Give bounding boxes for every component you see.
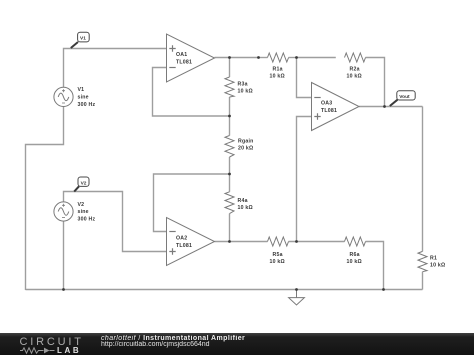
resistor Rgain zigzag [225,136,234,158]
svg-text:OA2: OA2 [176,236,187,242]
svg-text:R4a: R4a [238,198,248,204]
node OA3 out / R2a [383,105,386,108]
svg-text:R1a: R1a [273,67,283,73]
resistor R3a zigzag [225,77,234,97]
source V2 [54,202,73,221]
svg-text:sine: sine [78,95,89,101]
resistor R1a zigzag [268,53,289,62]
footer text line 2 [101,341,210,348]
footer bar [0,333,474,355]
svg-text:R5a: R5a [273,252,283,258]
node R6a rail [382,288,385,291]
resistor R6a zigzag [345,237,366,246]
wire R1a leads [259,57,268,59]
footer logo CIRCUIT [20,336,84,348]
node R3a bottom [228,115,231,118]
wire R1 bottom lead [422,272,424,290]
wire junction to OA3 minus [297,58,312,98]
svg-text:10 kΩ: 10 kΩ [347,74,362,80]
node V2 bottom rail [62,288,65,291]
op-amp OA2 [167,218,215,266]
source V1 [54,87,73,106]
svg-text:sine: sine [78,209,89,215]
wire R3a chain vertical top [229,58,231,78]
footer text line 1 [101,335,245,342]
wire R5a right to junction [289,241,345,243]
wire OA2 output row [215,241,268,243]
wire junction up to OA3 plus [297,117,312,242]
wire V1 top to OA1 plus [64,49,167,88]
resistor R2a zigzag [345,53,366,62]
svg-text:OA1: OA1 [176,52,187,58]
wire V2 bottom to rail [63,221,65,289]
wire OA1 feedback from R3a bottom [153,68,230,117]
svg-text:10 kΩ: 10 kΩ [270,259,285,265]
resistor R4a zigzag [225,192,234,214]
svg-text:Vout: Vout [399,94,410,100]
svg-text:10 kΩ: 10 kΩ [430,263,445,269]
node R1a left terminal [257,56,260,59]
op-amp OA3 [312,83,360,131]
wire OA3 output to right [359,106,423,108]
svg-text:TL081: TL081 [176,243,192,249]
svg-text:300 Hz: 300 Hz [78,217,96,223]
resistor R5a zigzag [268,237,289,246]
svg-text:10 kΩ: 10 kΩ [347,259,362,265]
svg-text:V2: V2 [78,202,85,208]
node V2 label [74,177,89,192]
wire R4a top lead [229,174,231,192]
wire R3a bottom lead [229,97,231,116]
svg-text:300 Hz: 300 Hz [78,102,96,108]
op-amp OA1 [167,34,215,82]
wire V1 bottom to left rail [26,107,64,291]
resistor R1 zigzag [418,251,427,271]
wire R1a-R2a segment [297,57,336,59]
svg-text:V1: V1 [78,87,85,93]
svg-text:R3a: R3a [238,82,248,88]
svg-text:OA3: OA3 [321,100,332,106]
ground [289,290,305,306]
node ground rail [295,288,298,291]
footer logo zigzag [20,346,56,355]
node Rgain bottom [228,173,231,176]
node R5a right / OA3 plus [295,240,298,243]
node R1a right / OA3 minus [295,56,298,59]
wire Rgain top lead [229,116,231,136]
resistor labels [238,67,446,269]
wire OA1 output row [215,57,259,59]
node OA1out/R3a [228,56,231,59]
footer logo LAB [57,346,81,355]
svg-text:R1: R1 [430,256,437,262]
svg-text:10 kΩ: 10 kΩ [270,74,285,80]
node Vout label [390,91,415,106]
wire OA2 feedback from Rgain bottom [154,174,230,232]
wire R6a right down to rail [366,242,384,290]
svg-text:TL081: TL081 [176,59,192,65]
wire Rgain bottom lead [229,157,231,174]
svg-text:Rgain: Rgain [238,139,254,145]
svg-text:R2a: R2a [350,67,360,73]
node V1 label [71,32,89,48]
node R4a bottom / OA2 out [228,240,231,243]
svg-text:10 kΩ: 10 kΩ [238,88,253,94]
svg-text:V2: V2 [81,180,87,186]
wire R2a right to OA3 output node [366,58,385,107]
svg-text:V1: V1 [80,36,86,42]
svg-text:20 kΩ: 20 kΩ [238,146,253,152]
svg-text:TL081: TL081 [321,108,337,114]
wire right vertical to R1 [422,107,424,252]
svg-text:R6a: R6a [350,252,360,258]
wire bottom ground rail [26,289,423,291]
wire V2 top to OA2 plus [64,192,167,252]
svg-text:10 kΩ: 10 kΩ [238,205,253,211]
wire R4a bottom lead [229,214,231,242]
